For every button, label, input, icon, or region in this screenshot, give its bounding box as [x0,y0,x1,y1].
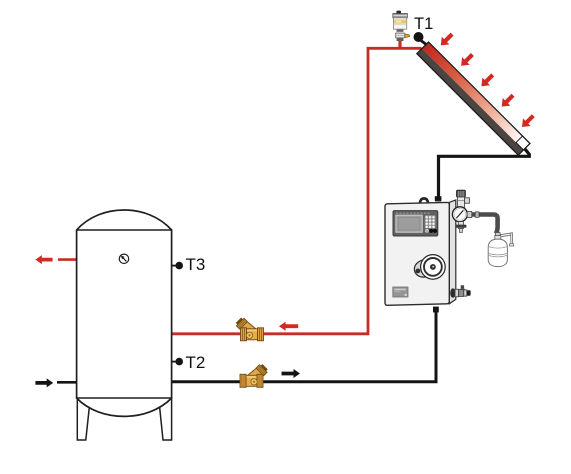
svg-text:T3: T3 [186,255,206,274]
svg-text:T2: T2 [186,353,206,372]
svg-text:T1: T1 [414,15,433,33]
